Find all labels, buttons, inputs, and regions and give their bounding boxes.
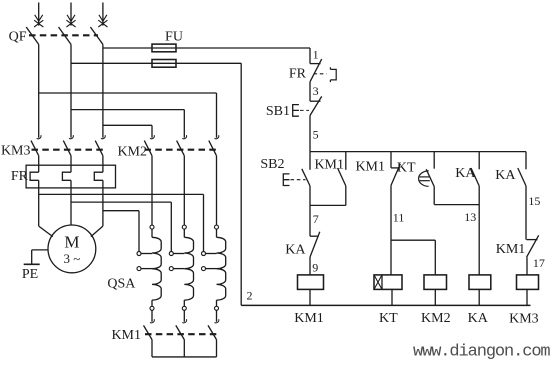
svg-text:KM1: KM1 [496, 242, 526, 257]
svg-text:9: 9 [312, 261, 318, 275]
svg-text:KM1: KM1 [294, 311, 324, 326]
svg-text:KM3: KM3 [1, 143, 31, 158]
svg-text:FR: FR [11, 169, 29, 184]
svg-text:17: 17 [533, 256, 545, 270]
svg-text:3: 3 [313, 84, 319, 98]
svg-text:7: 7 [313, 212, 319, 226]
svg-text:KA: KA [495, 168, 516, 183]
svg-text:KT: KT [379, 311, 398, 326]
svg-text:KM3: KM3 [509, 311, 539, 326]
svg-text:KA: KA [285, 242, 306, 257]
svg-text:FR: FR [289, 66, 307, 81]
svg-text:KM1: KM1 [355, 159, 385, 174]
svg-text:15: 15 [528, 194, 540, 208]
svg-text:2: 2 [247, 289, 253, 303]
svg-text:13: 13 [464, 210, 476, 224]
svg-text:KT: KT [397, 161, 416, 176]
svg-text:www.diangon.com: www.diangon.com [413, 343, 550, 362]
svg-text:KA: KA [455, 166, 476, 181]
svg-text:KM1: KM1 [111, 328, 141, 343]
svg-text:KM2: KM2 [117, 144, 147, 159]
svg-text:SB2: SB2 [260, 157, 284, 172]
svg-text:KM2: KM2 [421, 311, 451, 326]
svg-text:5: 5 [313, 128, 319, 142]
svg-text:QF: QF [9, 30, 27, 45]
svg-text:SB1: SB1 [266, 104, 290, 119]
svg-text:PE: PE [22, 267, 38, 282]
svg-text:M: M [64, 233, 79, 252]
svg-text:KM1: KM1 [314, 157, 344, 172]
svg-text:FU: FU [165, 30, 183, 45]
svg-text:KA: KA [468, 311, 489, 326]
svg-text:3 ~: 3 ~ [64, 251, 81, 266]
svg-text:QSA: QSA [107, 277, 136, 292]
svg-text:11: 11 [393, 211, 405, 225]
svg-text:1: 1 [313, 48, 319, 62]
